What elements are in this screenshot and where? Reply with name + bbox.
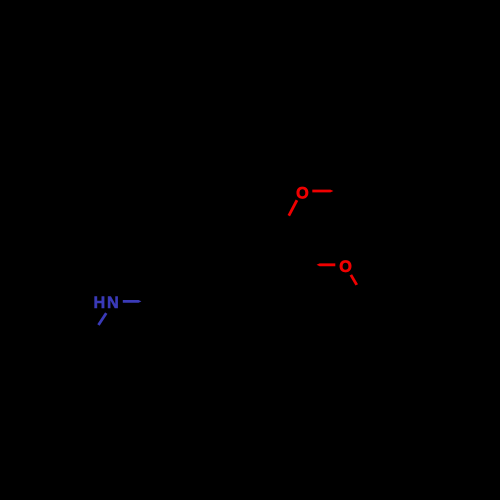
bond O2-CH3 (half-bond at O2, diagonal down-right) xyxy=(350,274,358,285)
bond O2-Caryl (half-bond at O2, horizontal left) xyxy=(317,263,336,266)
bond N1-C2 (half-bond at N, horizontal right) xyxy=(123,300,142,303)
atom label N1 (HN, secondary amine) xyxy=(94,294,119,312)
bond O1-CH3 (half-bond at O1, horizontal right) xyxy=(312,190,333,193)
svg-text:O: O xyxy=(296,184,309,202)
bond O1-Caryl (half-bond at O1, diagonal down-left) xyxy=(288,200,299,217)
svg-text:O: O xyxy=(339,258,352,276)
svg-text:H: H xyxy=(94,294,106,312)
svg-text:N: N xyxy=(107,294,119,312)
bond N1-CH3 (half-bond at N, diagonal down-left) xyxy=(97,312,107,325)
